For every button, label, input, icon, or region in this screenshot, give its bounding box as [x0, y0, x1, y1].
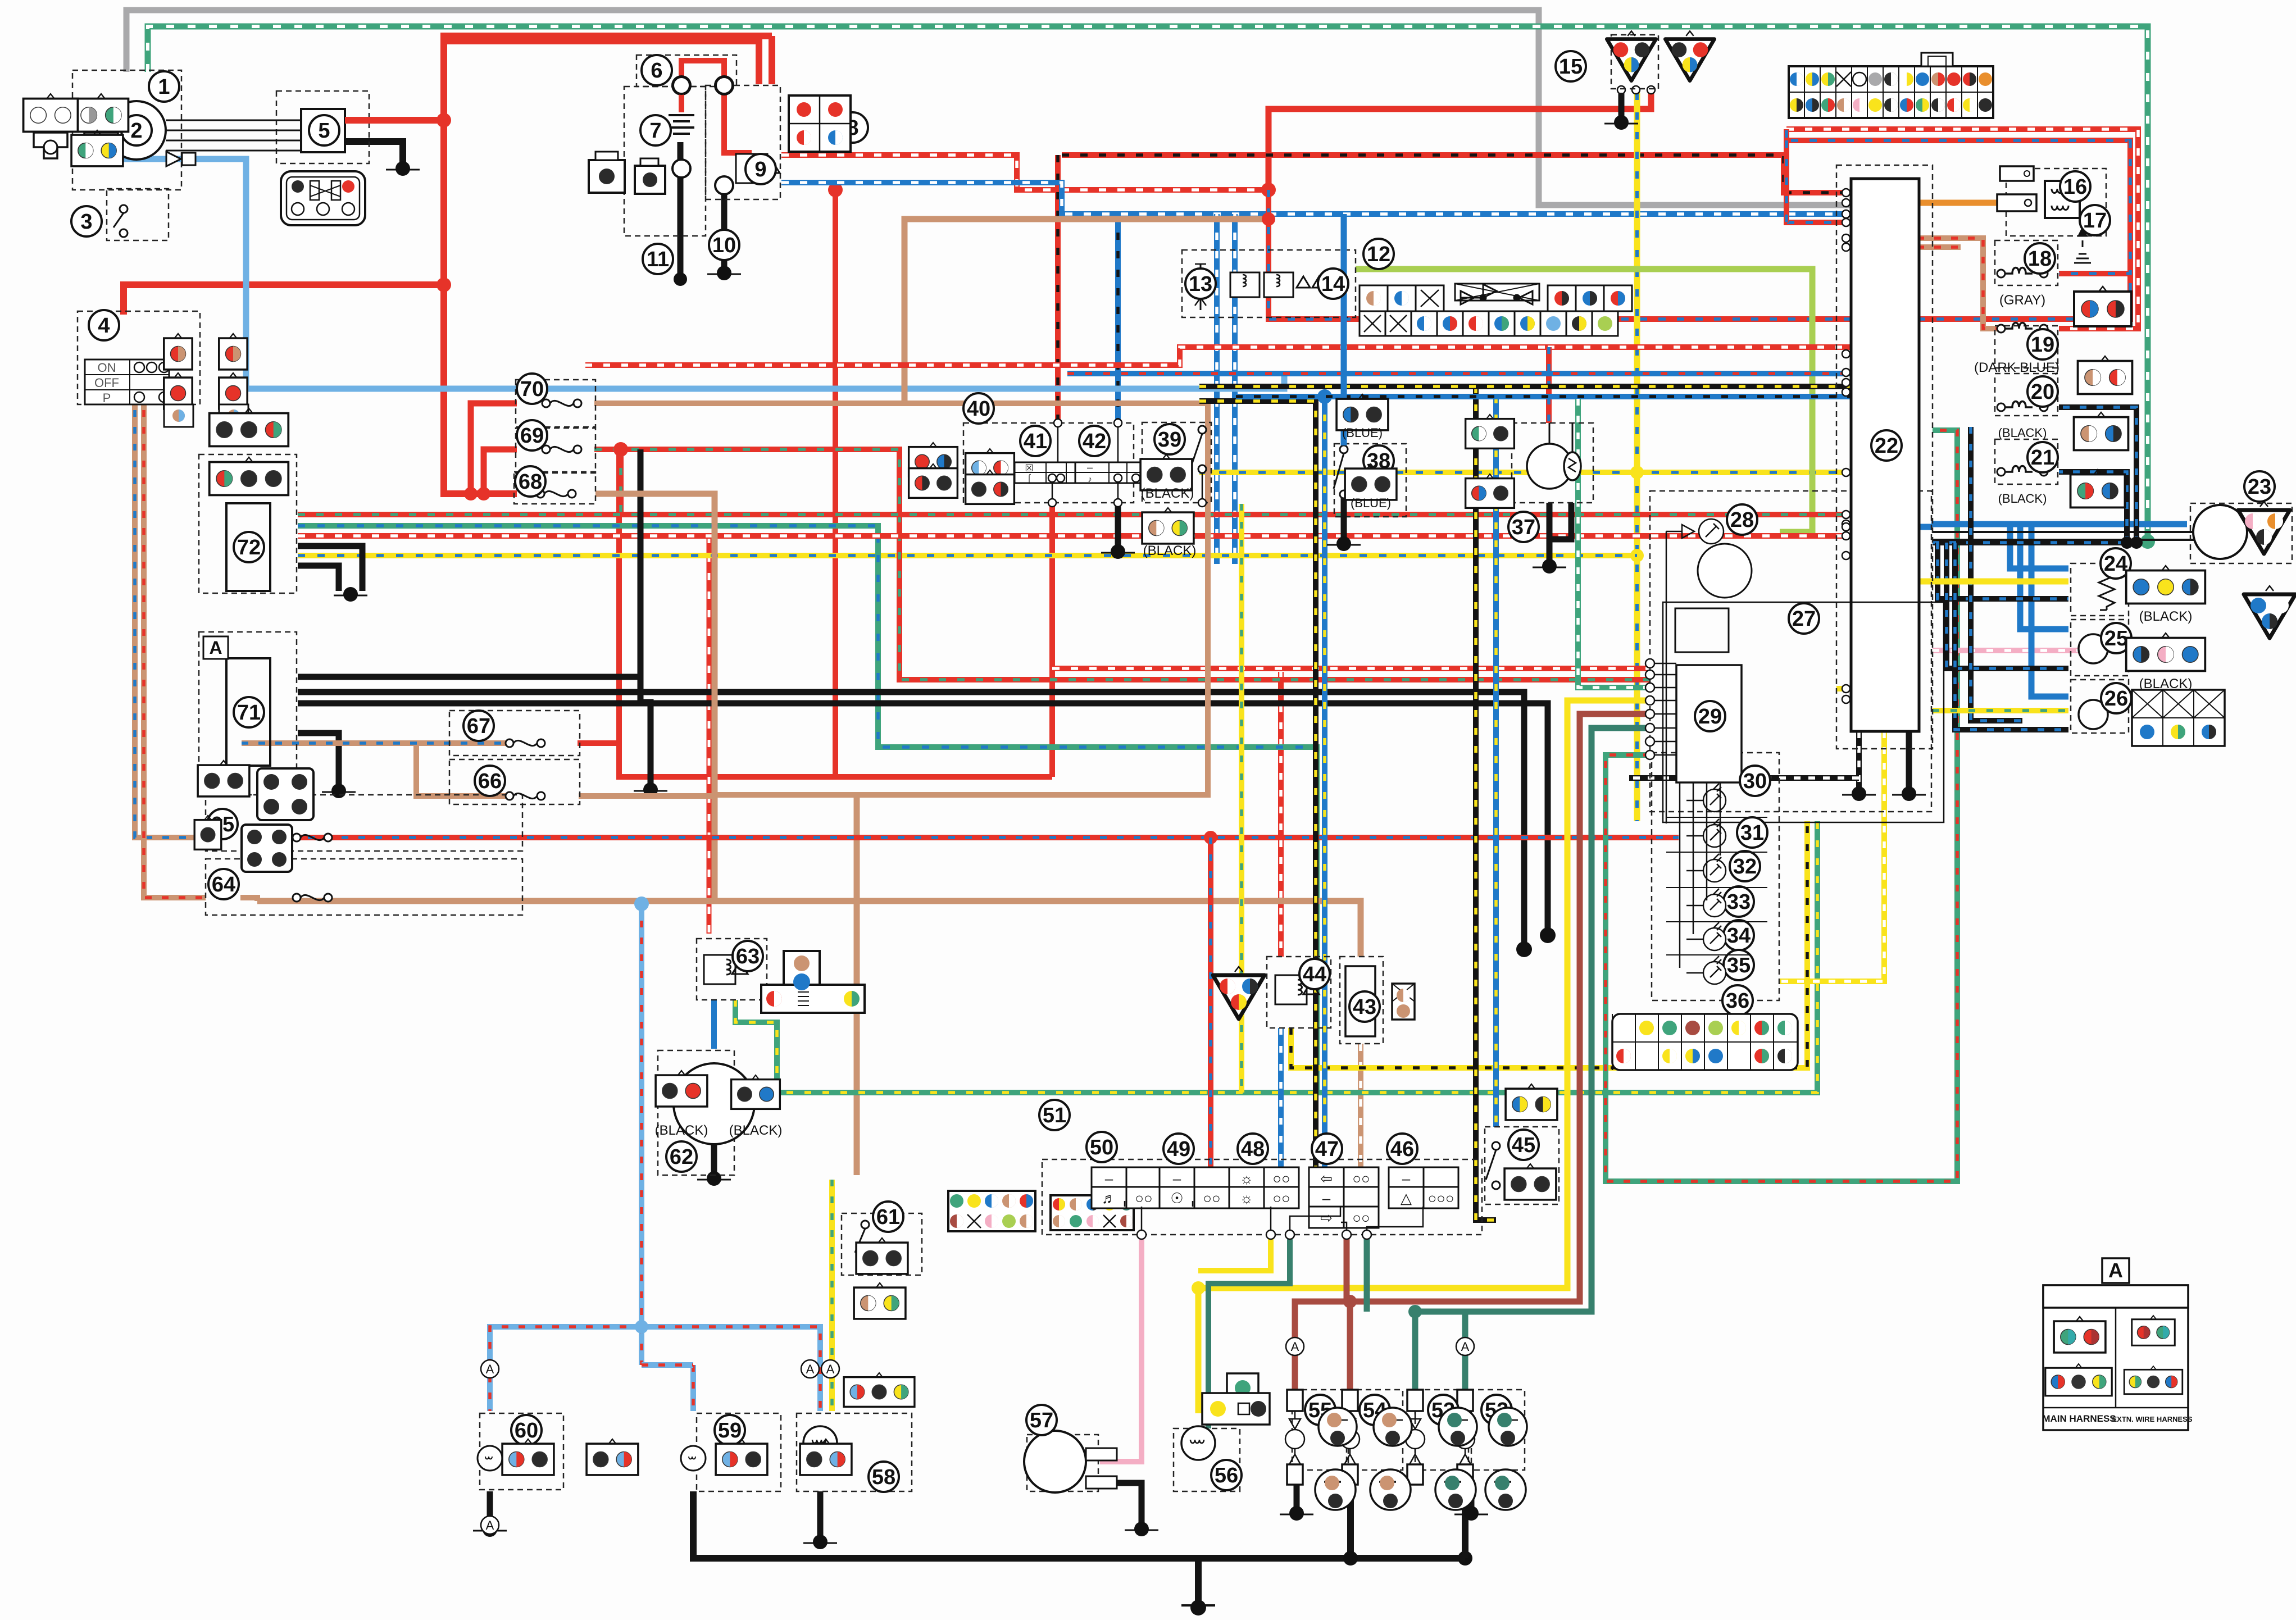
wire red/blue fuse65 out [240, 835, 1679, 840]
wire teal 52 [1462, 1312, 1468, 1390]
box 55 [1292, 1390, 1348, 1470]
svg-text:♬: ♬ [1102, 1190, 1116, 1207]
legend connector 3 [2045, 1364, 2112, 1396]
led 32 [1686, 854, 1726, 882]
wire black/white ecu gnd [1856, 731, 1862, 791]
ground 15 [1604, 115, 1638, 130]
box fuse 66 [449, 759, 580, 804]
svg-text:–: – [1105, 1170, 1113, 1187]
component 10 label [709, 230, 739, 260]
svg-text:66: 66 [478, 770, 502, 793]
component 68 label [515, 466, 545, 497]
plug cap low 2305 [1315, 1469, 1356, 1510]
wire thin gen 1 [166, 130, 301, 131]
wire red/blue upper [1529, 140, 2130, 319]
component 29 label [1695, 701, 1725, 731]
svg-text:50: 50 [1090, 1136, 1113, 1159]
component 59 label [715, 1415, 745, 1445]
wire blue/red right lamp [642, 1327, 820, 1411]
meter cpu 29 box [1676, 665, 1742, 782]
wire yellow 56 [1198, 700, 1650, 1413]
component 5 label [309, 115, 339, 145]
switch row 50b [1092, 1187, 1161, 1208]
wire yellow/white ecu [1780, 731, 1884, 981]
box 59 [697, 1413, 781, 1491]
wire black bus stub [1195, 1558, 1202, 1604]
wire black 71 ground [298, 733, 339, 786]
wire tan fuse66 feed [416, 743, 507, 796]
component 1 label [149, 71, 179, 102]
connector 60a [502, 1439, 554, 1475]
relay unit 71 box [226, 658, 270, 766]
connector 40d [966, 470, 1015, 504]
svg-text:10: 10 [712, 234, 736, 257]
wire black 38 gnd [1341, 498, 1347, 539]
connector 43 [1392, 984, 1415, 1020]
svg-text:35: 35 [1727, 954, 1751, 977]
wire red to relay9 [724, 85, 752, 153]
connector 39b [1142, 508, 1194, 544]
connector 56a [1202, 1373, 1270, 1425]
pin 29 [1645, 709, 1676, 718]
ground 58 [803, 1535, 837, 1549]
bulb 55 [1285, 1390, 1304, 1485]
svg-text:A: A [486, 1518, 494, 1532]
wire green/white 29 [1578, 399, 1650, 688]
connector 71c [194, 816, 221, 849]
box fuse 65 [206, 795, 522, 851]
wire blue/white 13 drop2 [1232, 214, 1238, 564]
legend A box [2042, 1258, 2192, 1430]
svg-text:33: 33 [1727, 890, 1751, 914]
box 37 [1512, 423, 1593, 503]
component 36 label [1722, 985, 1753, 1016]
svg-text:46: 46 [1390, 1137, 1414, 1161]
pin 22 [1842, 520, 1850, 528]
pin 22 [1842, 685, 1850, 693]
wire red/white long 618b [1548, 344, 1850, 350]
svg-text:70: 70 [520, 377, 544, 401]
connector 58a [844, 1373, 915, 1407]
component 9 label [745, 154, 776, 184]
fuse 65 [293, 834, 332, 841]
wire red/white long 618 [585, 347, 1548, 365]
fan motor 37 [1527, 423, 1581, 489]
component 48 label [1238, 1134, 1268, 1164]
wire black/blue fuse20 [2059, 407, 2136, 543]
svg-text:1: 1 [158, 75, 170, 99]
svg-text:44: 44 [1303, 963, 1326, 986]
svg-text:(BLUE): (BLUE) [1351, 496, 1391, 510]
fuse 21 resistor [1997, 466, 2048, 476]
wire pink 25 [1933, 648, 2090, 653]
wire black 10 [721, 185, 728, 270]
wire black 11 [678, 142, 684, 279]
box 53 [1415, 1390, 1471, 1470]
svg-text:(BLUE): (BLUE) [1342, 426, 1383, 440]
wire thin 23b [1933, 539, 2202, 541]
A bubble [481, 1516, 499, 1534]
svg-text:☼: ☼ [1240, 1170, 1253, 1187]
svg-text:59: 59 [718, 1419, 742, 1442]
wire thin 23a [1933, 531, 2202, 533]
svg-text:♪: ♪ [1088, 475, 1092, 484]
gauge 28 [1698, 544, 1752, 598]
wire red/blue ecu [1786, 129, 1850, 222]
bulb 25 [2079, 634, 2108, 663]
pin 51 [1342, 1230, 1351, 1239]
svg-text:MAIN HARNESS: MAIN HARNESS [2042, 1413, 2116, 1424]
fuse 19 [1997, 323, 2048, 333]
wire lime green [1356, 269, 1812, 532]
wire skyblue main [124, 159, 1284, 389]
led 34 [1686, 922, 1726, 950]
box main switch 4 [78, 311, 200, 404]
wire yellow/blue long [298, 553, 1637, 558]
ground 38 [1327, 536, 1361, 551]
fuse 20 resistor [1997, 402, 2048, 412]
svg-text:7: 7 [649, 119, 661, 143]
component 14 label [1318, 269, 1348, 299]
switch row 49 [1160, 1167, 1229, 1189]
connector 4a [164, 334, 192, 370]
pin 22 [1842, 243, 1850, 251]
wire red to fuse 68 [444, 285, 517, 494]
component 11 label [643, 244, 673, 274]
svg-text:(BLACK): (BLACK) [1998, 426, 2047, 440]
svg-text:A: A [1291, 1340, 1299, 1354]
pin 51 [1362, 1230, 1371, 1239]
relay 13 [1195, 264, 1326, 306]
wire black bus1 [298, 692, 1524, 945]
pin 29 [1645, 750, 1676, 759]
wire green/red long [1606, 430, 1957, 1181]
wire red vertical center [833, 190, 838, 777]
connector 72b [210, 457, 289, 495]
component 25 label [2101, 623, 2131, 653]
bulb 26 [2079, 700, 2108, 729]
wire black 62 [711, 1144, 717, 1175]
ground 10 [707, 266, 741, 280]
plug cap 2608 [1489, 1408, 1527, 1446]
fuse 70 [542, 399, 581, 407]
wire tan main [904, 219, 1269, 403]
connector grid top right [1789, 53, 1993, 118]
component 30 label [1740, 766, 1770, 796]
resistor 24 [2099, 568, 2115, 610]
switch 45 [1486, 1142, 1500, 1189]
svg-text:48: 48 [1241, 1137, 1265, 1161]
svg-text:71: 71 [237, 701, 261, 725]
spark gap 17 [2061, 218, 2091, 263]
wire red/black branch [1055, 155, 1061, 421]
wire blue/white harness [781, 183, 1850, 214]
component 44 label [1299, 959, 1330, 989]
box handlebar switch 51 [1042, 1159, 1482, 1235]
plate bulb 56 [1181, 1426, 1215, 1460]
connector 1a [74, 94, 129, 131]
svg-text:☉: ☉ [1170, 1190, 1183, 1207]
svg-text:(GRAY): (GRAY) [1999, 293, 2045, 308]
legend connector 1 [2054, 1317, 2106, 1353]
wire tan/white 43 drop [1358, 1044, 1363, 1175]
generator 2 symbol [107, 101, 166, 160]
wire black drop [640, 449, 651, 785]
wire red/green long [594, 449, 1650, 680]
junction dots bottom [635, 1320, 648, 1334]
connector 2a [71, 130, 123, 166]
component 42 label [1079, 426, 1110, 456]
box 43 [1340, 957, 1383, 1044]
box meter 27 [1650, 491, 1931, 812]
svg-text:30: 30 [1743, 770, 1767, 793]
switch row 47 [1309, 1167, 1379, 1189]
wire tan to 51 [854, 795, 860, 1175]
ecu 22 box [1851, 179, 1919, 731]
ground 72 [334, 587, 367, 602]
wire yellow/green vertical 2210 [1239, 504, 1244, 1093]
triangle connector 15a [1607, 31, 1656, 80]
flasher 72 box [226, 503, 270, 591]
wire blue/red left lamp [490, 904, 642, 1411]
component 50 label [1086, 1132, 1117, 1162]
svg-text:9: 9 [754, 158, 766, 181]
box flasher 72 [199, 454, 297, 593]
wire red/blue 49 drop [1208, 838, 1213, 1175]
meter internals [1666, 531, 1720, 968]
svg-text:26: 26 [2104, 687, 2128, 711]
svg-text:63: 63 [736, 945, 760, 968]
svg-text:20: 20 [2031, 380, 2054, 404]
wires 41 42 [1048, 419, 1122, 507]
fuse 66 [506, 792, 545, 800]
wire red to fuse 69 [484, 449, 517, 494]
connector 71a [198, 761, 249, 797]
rectifier 12 internals [1194, 264, 1207, 310]
switch row 48b [1229, 1187, 1299, 1208]
ground 60 [473, 1522, 507, 1537]
wire red battery [124, 41, 759, 315]
wire blue 23 [1931, 521, 2187, 527]
component 35 label [1724, 950, 1754, 980]
wire black/yellow 45 drop [1476, 386, 1496, 1220]
box relay unit 71 [199, 632, 297, 795]
wire black 60 gnd [487, 1491, 493, 1527]
svg-text:○○: ○○ [1272, 1170, 1290, 1187]
fuse 69 [542, 445, 581, 453]
svg-text:34: 34 [1727, 924, 1751, 948]
switch 3 [113, 205, 128, 237]
wire black/white dashed [1629, 775, 1859, 781]
pin 22 [1842, 210, 1850, 218]
ground 55 [1280, 1506, 1313, 1521]
svg-text:4: 4 [98, 314, 110, 338]
wire tan/blue fuse67 feed [242, 740, 507, 746]
connector 1b tail [34, 133, 67, 158]
component 61 label [873, 1202, 903, 1232]
wire red comp6 loop [681, 61, 724, 85]
connector strip 51b [1051, 1195, 1134, 1230]
wire teal 53 [1415, 728, 1650, 1390]
connector 11a [589, 152, 625, 193]
svg-text:P: P [103, 391, 111, 405]
wire red/white harness [781, 155, 1269, 190]
svg-text:○○: ○○ [1352, 1209, 1370, 1226]
wire teal 56 feed [1208, 1236, 1290, 1428]
box 26 [2071, 680, 2129, 733]
wire red/white to relay63 [707, 536, 712, 934]
svg-text:18: 18 [2028, 247, 2052, 271]
svg-text:(BLACK): (BLACK) [2139, 609, 2193, 624]
connector 1a tail [84, 133, 118, 158]
box 15 [1611, 35, 1658, 89]
svg-text:72: 72 [237, 536, 261, 559]
component 62 label [666, 1141, 697, 1172]
component 45 label [1508, 1130, 1539, 1160]
svg-text:56: 56 [1215, 1464, 1238, 1487]
wire tan fuse68 out [595, 494, 715, 901]
connector 4e [219, 373, 247, 409]
wire teal 51 feed [1364, 1236, 1370, 1312]
svg-text:62: 62 [670, 1145, 693, 1169]
component 60 label [511, 1415, 542, 1445]
triangle connector 23a [2238, 502, 2290, 554]
wire black 72a [298, 546, 362, 591]
connector 8 [789, 95, 851, 152]
connector 72a [210, 408, 289, 446]
wire black bus2 [298, 703, 1548, 931]
wire red/white 44 feed [1278, 672, 1284, 957]
svg-text:3: 3 [80, 210, 92, 234]
wire black/yellow long 688 [1199, 384, 1850, 389]
A bubble [1456, 1337, 1474, 1355]
box horn 62 [658, 1050, 734, 1175]
connector 4d [219, 334, 247, 370]
component 70 label [517, 374, 547, 404]
connector 37a [1466, 415, 1515, 448]
connector 63 [761, 951, 865, 1013]
box ignition switch 1/2 [72, 70, 181, 190]
svg-text:A: A [1461, 1340, 1470, 1354]
wire yellow/green 26 [1933, 708, 2068, 713]
horn 62 [674, 1063, 754, 1144]
pin 22 [1842, 234, 1850, 242]
box fuse 68 [514, 472, 595, 504]
component 4 label [89, 310, 119, 340]
wire red/green 72 [298, 512, 1850, 517]
component 65 label [207, 809, 238, 839]
component 40 label [963, 393, 994, 424]
svg-text:○○: ○○ [1352, 1170, 1370, 1187]
wire blue 26 [2031, 524, 2068, 697]
svg-text:A: A [486, 1362, 494, 1376]
wire red vertical 41 [1049, 504, 1055, 777]
wire black 52 gnd [1462, 1483, 1468, 1558]
svg-text:36: 36 [1726, 989, 1749, 1013]
pin 22 [1842, 511, 1850, 518]
ground 42 [1101, 544, 1135, 559]
pin 22 [1842, 552, 1850, 559]
box fuse 18 [1995, 240, 2058, 285]
component 55 label [1305, 1395, 1335, 1425]
triangle connector 44 [1213, 967, 1265, 1019]
triangle connector 15b [1665, 31, 1714, 80]
plug cap 2403 [1374, 1408, 1412, 1446]
svg-text:11: 11 [647, 248, 669, 271]
wire black comp5 [345, 142, 403, 165]
switch 38 [1334, 445, 1348, 498]
connector 59a [716, 1439, 767, 1475]
wire black 37b [1547, 503, 1553, 562]
svg-text:17: 17 [2083, 209, 2107, 233]
svg-text:○○: ○○ [1135, 1190, 1152, 1207]
box 39 [1142, 422, 1211, 503]
component 21 label [2027, 442, 2058, 472]
starter relay 43 box [1345, 966, 1375, 1036]
component 32 label [1730, 851, 1760, 881]
valve symbol 3 [166, 152, 195, 166]
box 56 [1174, 1428, 1240, 1491]
svg-text:42: 42 [1083, 430, 1106, 453]
plug cap low 2403 [1370, 1469, 1411, 1510]
terminals 6 [672, 76, 733, 194]
battery 7 [669, 115, 694, 134]
component 20 label [2027, 376, 2058, 407]
relay 9 [736, 154, 780, 183]
component 43 label [1349, 991, 1380, 1022]
bulb 60 [478, 1446, 502, 1471]
svg-text:57: 57 [1030, 1409, 1053, 1432]
switch 39 [1192, 426, 1206, 473]
wire blue 38 feed [1341, 214, 1347, 445]
pin 22 [1842, 523, 1850, 531]
connector 61a [856, 1238, 908, 1274]
component 64 label [208, 869, 239, 899]
component 47 label [1312, 1134, 1342, 1164]
pin 22 [1842, 388, 1850, 396]
box fuse 67 [449, 711, 580, 756]
svg-text:29: 29 [1698, 705, 1722, 729]
connector 11b [635, 158, 665, 194]
connector 40b [909, 464, 958, 498]
A label 71 [203, 636, 228, 659]
rectifier 5 box [301, 109, 345, 152]
switch row 49b [1160, 1187, 1229, 1208]
A bubble [801, 1360, 819, 1378]
svg-text:27: 27 [1792, 607, 1816, 631]
fuse 67 [506, 739, 545, 747]
wire red/blue ecu2 [1784, 140, 1789, 222]
svg-text:2: 2 [130, 119, 142, 143]
legend connector 2 [2132, 1316, 2175, 1345]
box ecu 22 [1836, 165, 1933, 749]
wire black 58 gnd [817, 1491, 824, 1539]
wire black/blue mid [1971, 427, 2022, 721]
wire blue/red long 665 [1067, 371, 1850, 376]
bulb 54 [1340, 1390, 1360, 1485]
svg-text:(BLACK): (BLACK) [655, 1123, 708, 1138]
box 7 11 [624, 87, 706, 236]
meter panel outline [1663, 602, 1944, 822]
wire tan stub [1850, 244, 1961, 250]
svg-text:69: 69 [520, 424, 544, 448]
connector 60b [586, 1439, 638, 1475]
component 2 label [121, 115, 152, 145]
wire black 54 gnd [1347, 1483, 1354, 1558]
horn 57 [1024, 1431, 1086, 1492]
junction green dot [2140, 534, 2155, 549]
terminal rings 6 [673, 77, 733, 94]
